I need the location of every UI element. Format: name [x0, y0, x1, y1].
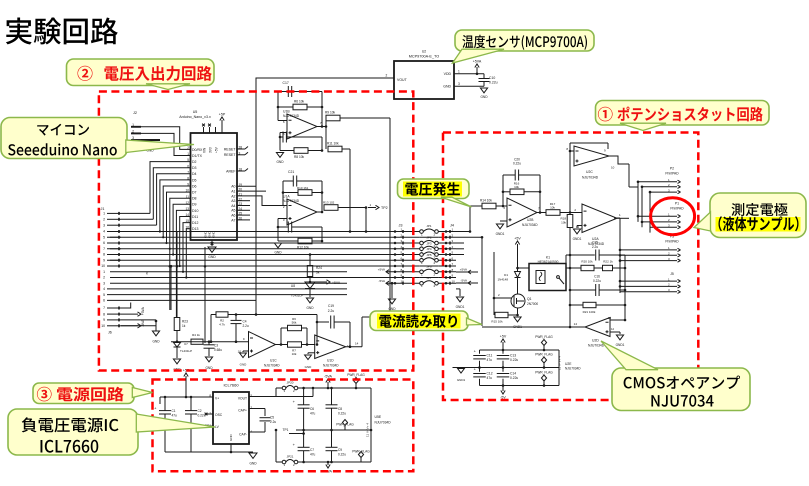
svg-text:C13: C13	[510, 354, 516, 358]
svg-text:9: 9	[103, 258, 105, 262]
svg-text:0.22u: 0.22u	[198, 414, 206, 418]
svg-text:C21: C21	[288, 170, 294, 174]
svg-text:A5: A5	[231, 209, 235, 213]
svg-text:10k: 10k	[550, 206, 555, 210]
svg-text:U8: U8	[291, 284, 295, 288]
svg-text:CAP-: CAP-	[239, 433, 247, 437]
svg-text:U5: U5	[193, 110, 198, 114]
svg-text:PWR_FLAG: PWR_FLAG	[535, 335, 553, 339]
svg-text:C4: C4	[243, 320, 247, 324]
svg-text:10k: 10k	[561, 221, 566, 225]
svg-text:2.2u: 2.2u	[270, 420, 276, 424]
svg-text:C19: C19	[328, 304, 334, 308]
svg-text:1: 1	[103, 270, 105, 274]
svg-text:C9: C9	[338, 448, 342, 452]
svg-text:11 V- V+ 4: 11 V- V+ 4	[366, 423, 370, 437]
svg-text:GND: GND	[229, 434, 233, 442]
svg-text:GND: GND	[208, 255, 216, 259]
svg-text:47u: 47u	[487, 358, 493, 362]
svg-text:U5E: U5E	[375, 415, 382, 419]
svg-text:RESET: RESET	[224, 153, 237, 157]
svg-text:2: 2	[103, 276, 105, 280]
svg-text:NJU7034D: NJU7034D	[565, 367, 581, 371]
svg-text:GND: GND	[443, 85, 451, 89]
svg-text:Q1: Q1	[527, 297, 532, 301]
svg-text:A2: A2	[231, 194, 235, 198]
svg-text:0.22u: 0.22u	[510, 376, 518, 380]
svg-text:13: 13	[608, 316, 612, 320]
svg-text:R11 10k: R11 10k	[327, 142, 339, 146]
svg-text:2.2u: 2.2u	[328, 309, 335, 313]
svg-text:J6: J6	[108, 331, 112, 335]
svg-text:A7: A7	[231, 218, 235, 222]
svg-text:GND: GND	[240, 363, 248, 367]
svg-text:+5V: +5V	[514, 237, 521, 241]
svg-text:C12: C12	[487, 372, 493, 376]
svg-text:+5P: +5P	[219, 113, 226, 117]
svg-text:PWR_FLAG: PWR_FLAG	[535, 371, 553, 375]
svg-text:A1: A1	[231, 190, 235, 194]
svg-text:-5VA: -5VA	[379, 279, 385, 283]
svg-text:R6 10k: R6 10k	[294, 100, 305, 104]
svg-text:TL431LP: TL431LP	[291, 294, 303, 298]
svg-text:PWR_FLAG: PWR_FLAG	[347, 373, 365, 377]
svg-text:A6: A6	[231, 214, 235, 218]
svg-text:NJU7034D: NJU7034D	[588, 344, 605, 348]
svg-text:D4: D4	[192, 172, 197, 176]
svg-text:6: 6	[103, 241, 105, 245]
svg-text:GND: GND	[274, 251, 282, 255]
svg-text:ICL7660: ICL7660	[223, 383, 239, 388]
svg-text:4.7k: 4.7k	[219, 322, 225, 326]
svg-text:R8 10k: R8 10k	[294, 155, 305, 159]
svg-text:3: 3	[103, 223, 105, 227]
svg-text:J2: J2	[133, 111, 137, 115]
svg-text:C11: C11	[487, 354, 493, 358]
svg-text:R9 10k: R9 10k	[325, 111, 336, 115]
svg-text:1: 1	[103, 212, 105, 216]
svg-text:2.2u: 2.2u	[592, 245, 598, 249]
svg-text:3V3: 3V3	[209, 147, 213, 153]
svg-text:GND1: GND1	[457, 378, 466, 382]
svg-text:OSC: OSC	[215, 413, 223, 417]
svg-text:PWR_FLAG: PWR_FLAG	[535, 353, 553, 357]
svg-text:NJU7034D: NJU7034D	[323, 364, 339, 368]
svg-text:+5VA: +5VA	[460, 268, 467, 272]
svg-text:4: 4	[103, 230, 105, 234]
svg-text:P1: P1	[675, 202, 679, 206]
svg-text:U2D: U2D	[592, 339, 599, 343]
svg-text:JP3: JP3	[426, 241, 432, 245]
svg-text:8: 8	[103, 253, 105, 257]
svg-text:R23: R23	[182, 320, 188, 324]
svg-text:10: 10	[611, 166, 615, 170]
svg-text:GND: GND	[305, 365, 313, 369]
svg-text:C17: C17	[283, 81, 289, 85]
svg-text:JP21: JP21	[287, 455, 294, 459]
svg-text:JP4: JP4	[426, 247, 432, 251]
svg-text:D3: D3	[192, 166, 197, 170]
svg-text:0.22u: 0.22u	[510, 358, 518, 362]
svg-text:U2: U2	[422, 50, 426, 54]
svg-text:14: 14	[574, 322, 578, 326]
svg-text:JP5: JP5	[426, 253, 432, 257]
svg-text:PrintPAD: PrintPAD	[665, 240, 679, 244]
svg-text:R20 10k: R20 10k	[581, 260, 593, 264]
svg-text:10k: 10k	[514, 185, 519, 189]
svg-text:6: 6	[103, 299, 105, 303]
svg-text:5k: 5k	[316, 271, 320, 275]
svg-text:D6: D6	[192, 184, 197, 188]
svg-text:10: 10	[101, 324, 105, 328]
svg-text:14: 14	[355, 342, 359, 346]
svg-text:R4 1k: R4 1k	[192, 333, 200, 337]
svg-text:PWR_FLAG: PWR_FLAG	[352, 450, 370, 454]
svg-text:R14 10k: R14 10k	[480, 199, 492, 203]
svg-text:TP1: TP1	[282, 428, 288, 432]
svg-text:11 V- V+ 4: 11 V- V+ 4	[558, 356, 562, 370]
svg-text:+5VA: +5VA	[141, 306, 145, 315]
svg-text:12: 12	[611, 327, 615, 331]
svg-text:1k: 1k	[182, 324, 186, 328]
svg-text:RESET: RESET	[224, 147, 237, 151]
svg-text:NJU7034D: NJU7034D	[582, 175, 599, 179]
svg-text:47u: 47u	[487, 376, 493, 380]
svg-text:R10 161: R10 161	[297, 186, 309, 190]
svg-text:VIN: VIN	[203, 147, 207, 153]
svg-text:47u: 47u	[172, 414, 178, 418]
svg-text:2: 2	[103, 218, 105, 222]
svg-text:-5VA: -5VA	[461, 279, 467, 283]
svg-text:3: 3	[458, 82, 460, 86]
svg-text:0.22u: 0.22u	[338, 412, 346, 416]
svg-text:47u: 47u	[310, 453, 316, 457]
svg-text:P2: P2	[670, 167, 674, 171]
svg-text:A4: A4	[231, 204, 235, 208]
svg-text:D1: D1	[504, 273, 508, 277]
svg-text:U1C: U1C	[270, 359, 277, 363]
svg-text:C7: C7	[310, 448, 314, 452]
svg-text:J5: J5	[670, 272, 674, 276]
svg-text:VDD: VDD	[444, 72, 452, 76]
svg-text:D5: D5	[192, 178, 197, 182]
svg-text:5: 5	[103, 293, 105, 297]
svg-text:1: 1	[458, 69, 460, 73]
svg-text:+5V: +5V	[500, 335, 507, 339]
svg-text:VOUT: VOUT	[238, 397, 247, 401]
svg-text:TP2: TP2	[381, 206, 388, 210]
svg-text:2: 2	[386, 74, 388, 78]
svg-text:-5VA: -5VA	[324, 375, 332, 379]
svg-text:C5: C5	[270, 416, 274, 420]
svg-text:+5VA: +5VA	[473, 60, 482, 64]
svg-text:7: 7	[103, 306, 105, 310]
svg-text:AREF: AREF	[226, 169, 235, 173]
svg-text:C10: C10	[489, 76, 495, 80]
svg-text:1N4148: 1N4148	[497, 278, 508, 282]
svg-text:HE3621A0500: HE3621A0500	[538, 260, 559, 264]
svg-text:D13: D13	[192, 227, 198, 231]
svg-text:4: 4	[103, 287, 105, 291]
svg-text:JP1: JP1	[426, 224, 432, 228]
svg-text:47u: 47u	[310, 412, 316, 416]
svg-text:0.22u: 0.22u	[513, 162, 521, 166]
svg-text:R12 10k: R12 10k	[297, 246, 309, 250]
svg-text:U2C: U2C	[586, 170, 593, 174]
svg-text:56k: 56k	[292, 321, 297, 325]
svg-text:C3: C3	[214, 344, 218, 348]
svg-text:D12: D12	[192, 221, 198, 225]
svg-text:0.22u: 0.22u	[489, 81, 498, 85]
svg-text:0.22u: 0.22u	[593, 279, 601, 283]
svg-text:3: 3	[103, 281, 105, 285]
svg-text:R15 10k: R15 10k	[491, 320, 503, 324]
svg-text:9: 9	[103, 318, 105, 322]
svg-text:JP20: JP20	[287, 381, 294, 385]
svg-text:VOUT: VOUT	[397, 78, 408, 82]
svg-text:NJU7034D: NJU7034D	[375, 421, 392, 425]
svg-text:0.22u: 0.22u	[338, 453, 346, 457]
svg-text:Arduino_Nano_v3.x: Arduino_Nano_v3.x	[179, 115, 211, 119]
svg-text:J1: J1	[101, 207, 105, 211]
svg-text:U2E: U2E	[565, 362, 572, 366]
svg-text:0.68u: 0.68u	[214, 348, 222, 352]
svg-text:8: 8	[103, 312, 105, 316]
svg-text:7: 7	[103, 247, 105, 251]
svg-text:10: 10	[452, 279, 456, 283]
svg-text:GND: GND	[306, 306, 314, 310]
svg-text:TL431LP: TL431LP	[180, 349, 192, 353]
svg-text:U7: U7	[184, 342, 188, 346]
svg-text:R13 102: R13 102	[323, 201, 335, 205]
svg-text:R24: R24	[316, 266, 322, 270]
svg-text:+5VA: +5VA	[332, 281, 341, 285]
svg-text:PrintPAD: PrintPAD	[670, 207, 684, 211]
svg-text:D0/RX: D0/RX	[192, 148, 203, 152]
svg-text:C6: C6	[310, 407, 314, 411]
svg-text:GND: GND	[152, 340, 160, 344]
svg-text:D8: D8	[192, 197, 197, 201]
svg-text:2.2u: 2.2u	[243, 324, 249, 328]
svg-text:MCP9700A-E_TO: MCP9700A-E_TO	[409, 55, 440, 59]
svg-text:+5V: +5V	[215, 146, 219, 153]
svg-text:GND1: GND1	[616, 343, 625, 347]
svg-text:D11: D11	[192, 215, 198, 219]
svg-text:C8: C8	[338, 407, 342, 411]
svg-text:U1A: U1A	[283, 195, 290, 199]
svg-text:NJU7034D: NJU7034D	[522, 223, 538, 227]
svg-text:C2: C2	[198, 409, 202, 413]
svg-text:+5VA: +5VA	[378, 267, 385, 271]
svg-text:R21 100k: R21 100k	[583, 310, 596, 314]
svg-text:NJU7034D: NJU7034D	[264, 364, 280, 368]
svg-text:GND: GND	[480, 95, 488, 99]
svg-text:10k: 10k	[292, 352, 297, 356]
svg-text:U1D: U1D	[327, 359, 334, 363]
svg-text:D2: D2	[192, 160, 197, 164]
svg-text:D10: D10	[192, 209, 198, 213]
svg-text:D7: D7	[192, 191, 197, 195]
svg-text:GND1: GND1	[573, 237, 582, 241]
svg-text:U2B: U2B	[527, 218, 534, 222]
svg-text:V+: V+	[215, 397, 219, 401]
svg-text:D9: D9	[192, 203, 197, 207]
svg-text:GND1: GND1	[496, 232, 505, 236]
svg-text:GND: GND	[276, 160, 284, 164]
svg-text:GND: GND	[249, 462, 257, 466]
svg-text:A0: A0	[231, 185, 235, 189]
svg-text:GND1: GND1	[456, 305, 465, 309]
svg-text:CAP+: CAP+	[238, 409, 247, 413]
svg-text:R22 1k: R22 1k	[603, 260, 613, 264]
svg-text:5: 5	[103, 235, 105, 239]
svg-text:PrintPAD: PrintPAD	[665, 172, 679, 176]
svg-text:A3: A3	[231, 199, 235, 203]
svg-text:C14: C14	[510, 372, 516, 376]
svg-text:D1/TX: D1/TX	[192, 154, 203, 158]
svg-text:14: 14	[347, 344, 351, 348]
svg-text:U1B: U1B	[283, 110, 290, 114]
svg-text:C1: C1	[172, 409, 176, 413]
svg-text:PWR_FLAG: PWR_FLAG	[336, 423, 354, 427]
svg-text:2N7000: 2N7000	[527, 302, 538, 306]
svg-text:10: 10	[101, 264, 105, 268]
